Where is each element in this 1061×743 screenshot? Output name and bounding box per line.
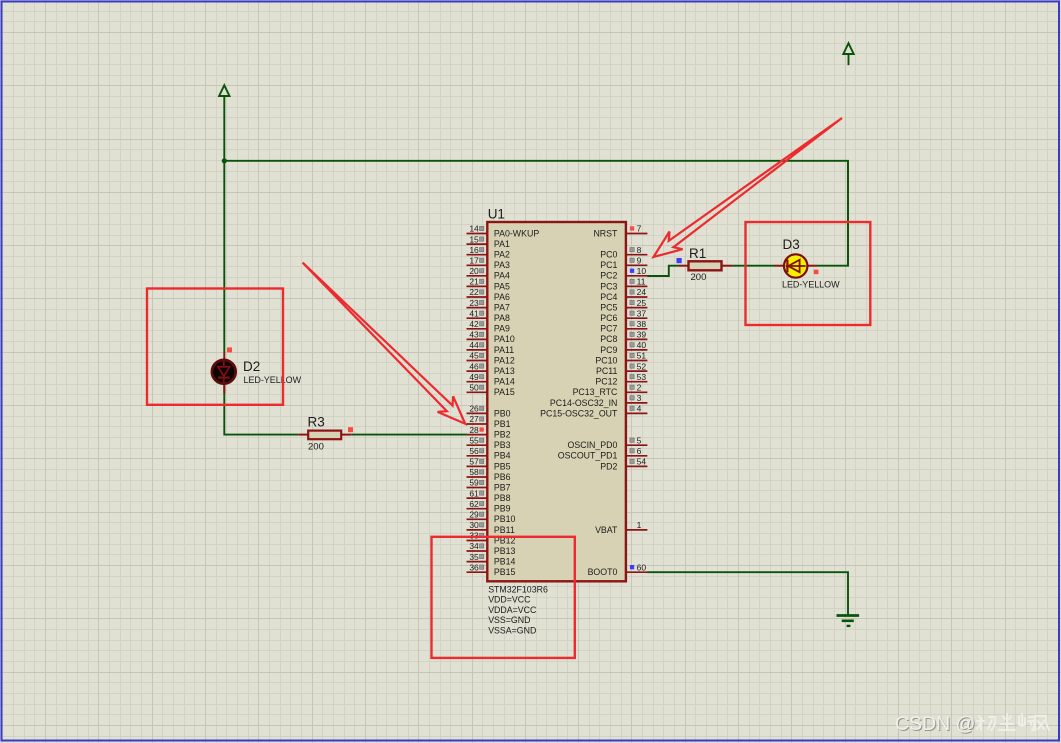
svg-text:PB15: PB15 [494, 567, 516, 577]
pin 16 PA2 (left) [467, 245, 510, 260]
wire: left vertical from junction down to D2 anode [223, 161, 225, 353]
svg-text:PC15-OSC32_OUT: PC15-OSC32_OUT [540, 408, 618, 418]
svg-text:59: 59 [469, 478, 479, 488]
svg-text:PA12: PA12 [494, 355, 515, 365]
annotation arrow toward pin 9/PC1 [654, 118, 843, 257]
svg-text:PC7: PC7 [600, 324, 617, 334]
svg-text:PA3: PA3 [494, 260, 510, 270]
svg-text:PB4: PB4 [494, 451, 511, 461]
svg-text:37: 37 [637, 308, 647, 318]
pin 44 PA11 (left) [467, 340, 515, 355]
svg-text:43: 43 [469, 330, 479, 340]
svg-text:22: 22 [469, 287, 479, 297]
svg-text:LED-YELLOW: LED-YELLOW [782, 280, 840, 290]
svg-text:PA10: PA10 [494, 334, 515, 344]
watermark CSDN [895, 713, 1049, 736]
pin 39 PC8 (right) [600, 330, 647, 345]
svg-text:D2: D2 [243, 359, 260, 374]
svg-text:PC10: PC10 [595, 355, 617, 365]
wire: R3 right lead to pin 28 PB2 [351, 434, 466, 436]
annotation rectangle around D3 [746, 222, 871, 325]
svg-text:5: 5 [637, 435, 642, 445]
svg-text:62: 62 [469, 499, 479, 509]
svg-text:VSS=GND: VSS=GND [488, 615, 530, 625]
pin 3 PC14-OSC32_IN (right) [550, 393, 647, 408]
svg-text:39: 39 [637, 330, 647, 340]
pin 60 BOOT0 (right) [588, 562, 648, 577]
R3 state square [348, 427, 353, 432]
svg-text:PA0-WKUP: PA0-WKUP [494, 228, 539, 238]
svg-text:10: 10 [637, 266, 647, 276]
svg-text:PA7: PA7 [494, 303, 510, 313]
svg-text:PA6: PA6 [494, 292, 510, 302]
pin 5 OSCIN_PD0 (right) [568, 435, 648, 450]
svg-text:PA5: PA5 [494, 281, 510, 291]
resistor R1 [679, 261, 733, 270]
svg-text:45: 45 [469, 351, 479, 361]
svg-text:PC3: PC3 [600, 281, 617, 291]
pin 41 PA8 (left) [467, 308, 510, 323]
svg-text:17: 17 [469, 256, 479, 266]
pin 29 PB10 (left) [467, 510, 516, 525]
svg-text:36: 36 [469, 562, 479, 572]
svg-text:PA2: PA2 [494, 250, 510, 260]
pin 8 PC0 (right) [600, 245, 647, 260]
LED D2 (off) [212, 353, 236, 394]
svg-text:1: 1 [637, 520, 642, 530]
svg-text:55: 55 [469, 435, 479, 445]
svg-text:CSDN @: CSDN @ [895, 713, 975, 735]
svg-text:2: 2 [637, 383, 642, 393]
svg-text:7: 7 [637, 224, 642, 234]
svg-text:20: 20 [469, 266, 479, 276]
pin 36 PB15 (left) [467, 562, 516, 577]
svg-text:PB1: PB1 [494, 419, 511, 429]
pin 49 PA14 (left) [467, 372, 515, 387]
svg-text:BOOT0: BOOT0 [588, 567, 618, 577]
pin 28 PB2 (left) [467, 425, 511, 440]
pin 27 PB1 (left) [467, 414, 511, 429]
LED D3 (lit) [774, 254, 817, 277]
pin 43 PA10 (left) [467, 330, 515, 345]
pin 62 PB9 (left) [467, 499, 511, 514]
svg-text:57: 57 [469, 457, 479, 467]
svg-text:25: 25 [637, 298, 647, 308]
svg-text:28: 28 [469, 425, 479, 435]
svg-text:PC2: PC2 [600, 271, 617, 281]
wire: R1 right lead to D3 anode [732, 265, 774, 267]
wire: D3 cathode right then up to top rail [817, 161, 849, 266]
pin 54 PD2 (right) [600, 457, 647, 472]
pin 15 PA1 (left) [467, 234, 510, 249]
svg-text:27: 27 [469, 414, 479, 424]
svg-text:PA11: PA11 [494, 345, 514, 355]
ground symbol [837, 616, 860, 626]
pin 11 PC3 (right) [600, 277, 647, 292]
svg-text:PB6: PB6 [494, 472, 511, 482]
svg-text:OSCOUT_PD1: OSCOUT_PD1 [558, 451, 618, 461]
power symbol P2 (top-right +V arrow) [843, 43, 853, 65]
svg-text:30: 30 [469, 520, 479, 530]
svg-text:OSCIN_PD0: OSCIN_PD0 [568, 440, 618, 450]
svg-text:4: 4 [637, 404, 642, 414]
pin 50 PA15 (left) [467, 383, 515, 398]
pin 6 OSCOUT_PD1 (right) [558, 446, 648, 461]
resistor R3 [298, 431, 351, 440]
svg-text:38: 38 [637, 319, 647, 329]
pin 23 PA7 (left) [467, 298, 510, 313]
pin 25 PC5 (right) [600, 298, 647, 313]
pin 52 PC11 (right) [596, 361, 647, 376]
pin 17 PA3 (left) [467, 256, 510, 271]
node: junction dot at P1/rail [222, 158, 227, 163]
pin 30 PB11 (left) [467, 520, 515, 535]
pin 51 PC10 (right) [595, 351, 647, 366]
svg-text:PA1: PA1 [494, 239, 510, 249]
pin 21 PA5 (left) [467, 277, 510, 292]
svg-text:PB9: PB9 [494, 504, 511, 514]
pin 20 PA4 (left) [467, 266, 510, 281]
svg-text:11: 11 [637, 277, 646, 287]
svg-text:9: 9 [637, 256, 642, 266]
svg-text:51: 51 [637, 351, 647, 361]
svg-text:60: 60 [637, 562, 647, 572]
svg-text:PB5: PB5 [494, 461, 511, 471]
svg-text:VBAT: VBAT [595, 525, 618, 535]
annotation arrow toward pin 27/PB1 [303, 263, 466, 424]
pin 56 PB4 (left) [467, 446, 511, 461]
svg-text:21: 21 [469, 277, 479, 287]
pin 35 PB14 (left) [467, 552, 516, 567]
svg-text:NRST: NRST [593, 228, 618, 238]
svg-text:PB2: PB2 [494, 430, 511, 440]
svg-text:24: 24 [637, 287, 647, 297]
pin 57 PB5 (left) [467, 457, 511, 472]
svg-text:PC14-OSC32_IN: PC14-OSC32_IN [550, 398, 617, 408]
svg-text:53: 53 [637, 372, 647, 382]
pin 40 PC9 (right) [600, 340, 647, 355]
svg-text:PB14: PB14 [494, 557, 516, 567]
svg-text:61: 61 [469, 488, 479, 498]
svg-text:58: 58 [469, 467, 479, 477]
svg-text:PC13_RTC: PC13_RTC [573, 387, 618, 397]
svg-text:R1: R1 [689, 246, 706, 261]
svg-text:VSSA=GND: VSSA=GND [488, 626, 536, 636]
annotation rectangle around PB12-PB15 / properties [432, 537, 575, 658]
svg-text:3: 3 [637, 393, 642, 403]
svg-text:14: 14 [469, 224, 479, 234]
svg-text:41: 41 [469, 308, 479, 318]
svg-text:PA8: PA8 [494, 313, 510, 323]
pin 10 PC2 (right) [600, 266, 647, 281]
svg-text:STM32F103R6: STM32F103R6 [488, 584, 548, 594]
svg-text:VDD=VCC: VDD=VCC [488, 595, 531, 605]
svg-text:29: 29 [469, 510, 479, 520]
pin 26 PB0 (left) [467, 404, 511, 419]
pin 46 PA13 (left) [467, 361, 515, 376]
power symbol P1 (top-left +V arrow) [219, 85, 229, 161]
pin 59 PB7 (left) [467, 478, 511, 493]
pin 24 PC4 (right) [600, 287, 647, 302]
svg-text:PA14: PA14 [494, 377, 515, 387]
svg-text:44: 44 [469, 340, 479, 350]
pin 2 PC13_RTC (right) [573, 383, 648, 398]
svg-text:200: 200 [308, 442, 324, 453]
svg-text:PA9: PA9 [494, 324, 510, 334]
svg-text:PC5: PC5 [600, 303, 617, 313]
svg-text:PD2: PD2 [600, 461, 617, 471]
D2 state square [227, 347, 232, 352]
svg-text:PB11: PB11 [494, 525, 515, 535]
wire: D2 cathode down and right to R3 left lead [224, 385, 298, 435]
pin 4 PC15-OSC32_OUT (right) [540, 404, 647, 419]
svg-text:15: 15 [469, 234, 479, 244]
svg-text:U1: U1 [488, 207, 505, 222]
svg-text:PB7: PB7 [494, 482, 511, 492]
pin 42 PA9 (left) [467, 319, 510, 334]
svg-text:PA4: PA4 [494, 271, 510, 281]
pin 37 PC6 (right) [600, 308, 647, 323]
pin 45 PA12 (left) [467, 351, 515, 366]
pin 9 PC1 (right) [600, 256, 647, 271]
svg-text:52: 52 [637, 361, 647, 371]
pin 1 VBAT (right) [595, 520, 647, 535]
svg-text:8: 8 [637, 245, 642, 255]
wire: pin 10 PC2 to R1 left lead [647, 266, 678, 276]
svg-text:PC8: PC8 [600, 334, 617, 344]
svg-text:LED-YELLOW: LED-YELLOW [244, 375, 302, 385]
svg-text:200: 200 [691, 272, 707, 283]
pin 7 NRST (right) [593, 224, 647, 239]
op IC U1 body (STM32F103R6) [487, 222, 626, 581]
svg-text:PA15: PA15 [494, 387, 515, 397]
svg-text:PB0: PB0 [494, 408, 511, 418]
svg-text:6: 6 [637, 446, 642, 456]
svg-text:PC9: PC9 [600, 345, 617, 355]
svg-text:D3: D3 [783, 237, 800, 252]
pin 58 PB6 (left) [467, 467, 511, 482]
svg-text:PC12: PC12 [595, 377, 617, 387]
svg-text:40: 40 [637, 340, 647, 350]
svg-text:50: 50 [469, 383, 479, 393]
svg-text:PB10: PB10 [494, 514, 516, 524]
pin 22 PA6 (left) [467, 287, 510, 302]
svg-text:PC6: PC6 [600, 313, 617, 323]
pin 53 PC12 (right) [595, 372, 647, 387]
pin 38 PC7 (right) [600, 319, 647, 334]
svg-text:35: 35 [469, 552, 479, 562]
pin 14 PA0-WKUP (left) [467, 224, 540, 239]
svg-text:VDDA=VCC: VDDA=VCC [488, 605, 537, 615]
wire: BOOT0 pin 60 to ground [647, 572, 848, 614]
pin 55 PB3 (left) [467, 435, 511, 450]
svg-text:16: 16 [469, 245, 479, 255]
D3 state square [814, 270, 819, 275]
pin 61 PB8 (left) [467, 488, 511, 503]
svg-text:PB8: PB8 [494, 493, 511, 503]
svg-text:PC4: PC4 [600, 292, 617, 302]
svg-text:PA13: PA13 [494, 366, 515, 376]
R1 state square (blue) [677, 258, 682, 263]
svg-text:42: 42 [469, 319, 479, 329]
svg-text:PC11: PC11 [596, 366, 617, 376]
pin 34 PB13 (left) [467, 541, 516, 556]
svg-text:54: 54 [637, 457, 647, 467]
wire: top horizontal rail from P1 junction to right column [224, 161, 848, 266]
svg-text:34: 34 [469, 541, 479, 551]
svg-text:PB3: PB3 [494, 440, 511, 450]
svg-text:R3: R3 [308, 415, 325, 430]
svg-text:49: 49 [469, 372, 479, 382]
svg-text:PB13: PB13 [494, 546, 516, 556]
svg-text:23: 23 [469, 298, 479, 308]
annotation rectangle around D2 [147, 289, 283, 405]
svg-text:26: 26 [469, 404, 479, 414]
svg-text:46: 46 [469, 361, 479, 371]
pin 33 PB12 (left) [467, 531, 516, 546]
svg-text:PC0: PC0 [600, 250, 617, 260]
svg-text:56: 56 [469, 446, 479, 456]
svg-text:PC1: PC1 [600, 260, 617, 270]
